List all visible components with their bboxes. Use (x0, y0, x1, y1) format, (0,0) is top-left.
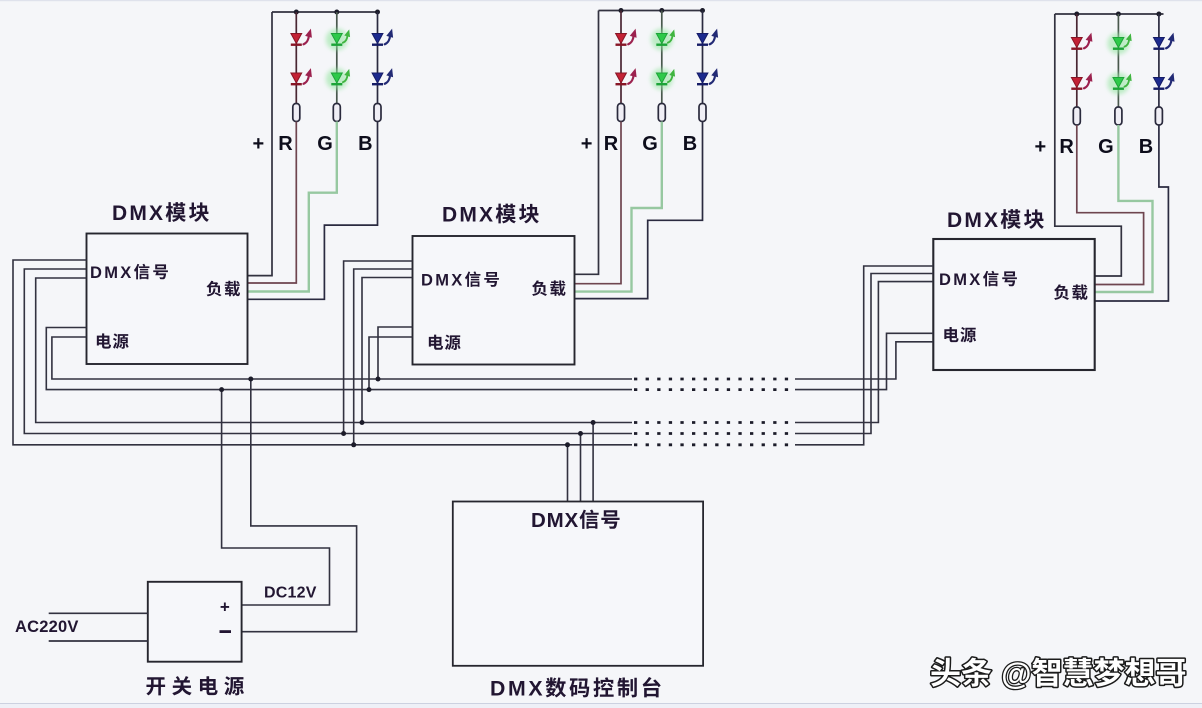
LED group A LED B2 (372, 73, 383, 83)
svg-text:DMX: DMX (90, 264, 134, 282)
LED group B resistor R (618, 104, 625, 122)
svg-text:R: R (1059, 136, 1074, 158)
junction dot bus5/U2 (351, 442, 356, 447)
LED group C LED G2 (1107, 73, 1129, 95)
wire net +12V: U1 upper power pin loop + bus line 2 (left solid) (46, 328, 632, 390)
LED group B resistor G (658, 104, 665, 122)
svg-text:+: + (1035, 136, 1047, 158)
wire net DMX-C: bus line 3 dotted middle (634, 421, 795, 424)
svg-text:G: G (1098, 136, 1114, 158)
LED group A resistor R (293, 104, 300, 122)
LED group A resistor B (374, 104, 381, 122)
LED group B B column wire (rail to resistor) (702, 11, 704, 104)
LED group B LED B1 (697, 34, 708, 44)
svg-text:DMX: DMX (531, 509, 579, 532)
LED group B LED B2 (697, 73, 708, 83)
LED group A R load wire to module (248, 122, 297, 284)
LED group A + supply wire to module (248, 12, 273, 276)
LED group C B load wire to module (1095, 125, 1169, 301)
svg-text:DMX: DMX (442, 204, 495, 227)
svg-text:AC220V: AC220V (15, 618, 79, 636)
LED group C LED B2 (1154, 78, 1165, 88)
LED group A R column wire (rail to resistor) (295, 12, 297, 104)
LED group B B load wire to module (575, 122, 703, 299)
svg-text:B: B (1139, 136, 1153, 158)
svg-text:B: B (358, 133, 372, 155)
LED group A G column wire (rail to resistor) (336, 12, 338, 104)
wire net GND: U1 lower power pin loop + bus line 1 (left solid) (52, 337, 632, 379)
junction dot bus2/PSU (219, 387, 224, 392)
svg-text:DMX: DMX (112, 202, 165, 225)
wire net GND: bus line 1 dotted middle (634, 378, 795, 381)
junction dot bus1/U2 (376, 377, 381, 382)
LED group B + supply wire to module (575, 11, 599, 275)
U1 label load (207, 281, 222, 297)
svg-text:+: + (581, 133, 593, 155)
LED group B anode rail wire (599, 10, 703, 12)
LED group C R load wire to module (1077, 125, 1144, 285)
wire branch: U2 upper power pin to bus line 1 (378, 327, 413, 379)
bottom edge line (0, 703, 1202, 704)
wire net DMX-C: U1 pin3 loop + bus line 3 (left solid) (36, 278, 632, 423)
wire net +12V: bus line 2 dotted middle (634, 388, 795, 391)
PS1 AC input wire lower (49, 640, 148, 642)
LED group B LED R2 (616, 73, 627, 83)
wire net DMX-A: U1 pin1 loop + bus line 5 (left solid) (13, 260, 632, 445)
svg-text:@: @ (1001, 656, 1031, 691)
LED group C resistor B (1155, 107, 1162, 125)
top edge line (0, 0, 1202, 1)
LED group C + supply wire to module (1055, 14, 1122, 276)
svg-text:DMX: DMX (939, 271, 983, 289)
LED group C G column wire (rail to resistor) (1117, 14, 1119, 107)
U3 label load (1054, 284, 1069, 300)
LED group B G column wire (rail to resistor) (661, 11, 663, 104)
wire branch: console to bus line 3 (592, 423, 594, 502)
LED group A LED R1 (291, 34, 302, 44)
LED group B R load wire to module (575, 122, 622, 284)
svg-text:+: + (220, 598, 230, 617)
LED group B rail junction dots (619, 8, 624, 13)
LED group B resistor B (699, 104, 706, 122)
wire branch: U2 pin2 to bus line 5 (354, 269, 413, 445)
svg-text:DMX: DMX (421, 271, 465, 289)
LED group C LED R2 (1071, 78, 1082, 88)
LED group A LED G2 (326, 68, 348, 90)
junction dot bus5/console (565, 442, 570, 447)
LED group C anode rail wire (1055, 13, 1164, 15)
U2 label power (429, 335, 443, 350)
DMX module U2 box (413, 236, 575, 365)
LED group B LED R1 (616, 34, 627, 44)
LED group A anode rail wire (272, 11, 380, 13)
wire branch: PSU - output to bus line 1 (242, 379, 357, 632)
svg-text:+: + (253, 133, 265, 155)
LED group A B column wire (rail to resistor) (377, 12, 379, 104)
svg-text:G: G (642, 133, 658, 155)
wire branch: console to bus line 5 (567, 445, 569, 502)
LED group A B load wire to module (248, 122, 378, 300)
LED group C LED R1 (1071, 38, 1082, 48)
LED group B LED G1 (651, 29, 673, 51)
LED group C LED B1 (1154, 38, 1165, 48)
svg-text:DC12V: DC12V (264, 585, 317, 602)
junction dot bus3/U2 (360, 420, 365, 425)
watermark text toutiao (931, 658, 960, 687)
svg-text:G: G (317, 133, 333, 155)
PS1 minus terminal (220, 630, 232, 633)
wire net DMX-B: bus line 4 dotted middle (634, 432, 795, 435)
LED group A LED R2 (291, 73, 302, 83)
LED group B LED G2 (651, 68, 673, 90)
U1 label power (97, 333, 111, 348)
DMX module U3 box (933, 239, 1094, 370)
junction dot bus1/PSU (248, 377, 253, 382)
junction dot bus2/U2 (367, 387, 372, 392)
svg-text:B: B (683, 133, 697, 155)
LED group B R column wire (rail to resistor) (620, 11, 622, 104)
wire branch: U2 pin1 to bus line 4 (344, 261, 413, 434)
svg-text:DMX: DMX (490, 677, 545, 701)
LED group C resistor R (1073, 107, 1080, 125)
U3 label power (944, 327, 958, 342)
junction dot bus4/U2 (341, 431, 346, 436)
LED group A G load wire to module (248, 122, 337, 292)
LED group C R column wire (rail to resistor) (1076, 14, 1078, 107)
wire branch: U2 lower power pin to bus line 2 (369, 337, 413, 390)
svg-text:R: R (604, 133, 619, 155)
wire net DMX-A: bus line 5 right + U3 pin1 (795, 266, 933, 445)
LED group C G load wire to module (1095, 125, 1153, 292)
wire branch: PSU + output to bus line 2 (222, 390, 330, 605)
DMX module U1 box (87, 234, 248, 365)
svg-text:DMX: DMX (947, 209, 1000, 232)
DMX console box (453, 502, 703, 666)
junction dot bus3/console (591, 420, 596, 425)
PS1 AC input wire upper (49, 612, 148, 614)
LED group C B column wire (rail to resistor) (1158, 14, 1160, 107)
switching power supply PS1 box (148, 582, 242, 662)
wire net GND: bus line 1 right + U3 lower power pin (795, 342, 933, 379)
U2 label load (532, 280, 547, 296)
wire net DMX-B: U1 pin2 loop + bus line 4 (left solid) (24, 269, 632, 434)
wire branch: U2 pin3 to bus line 3 (362, 278, 413, 423)
LED group A LED B1 (372, 34, 383, 44)
PS1 title switching power supply (146, 677, 165, 695)
wire net DMX-C: bus line 3 right + U3 pin3 (795, 282, 933, 423)
wire net DMX-B: bus line 4 right + U3 pin2 (795, 274, 933, 434)
junction dot bus4/console (578, 431, 583, 436)
LED group A rail junction dots (294, 10, 299, 15)
LED group C LED G1 (1107, 33, 1129, 55)
wire net DMX-A: bus line 5 dotted middle (634, 443, 795, 446)
wire net +12V: bus line 2 right + U3 upper power pin (795, 333, 933, 389)
wire branch: console to bus line 4 (580, 434, 582, 502)
LED group C resistor G (1115, 107, 1122, 125)
LED group C rail junction dots (1074, 12, 1079, 17)
LED group B G load wire to module (575, 122, 662, 292)
svg-text:R: R (278, 133, 293, 155)
LED group A LED G1 (326, 29, 348, 51)
LED group A resistor G (333, 104, 340, 122)
